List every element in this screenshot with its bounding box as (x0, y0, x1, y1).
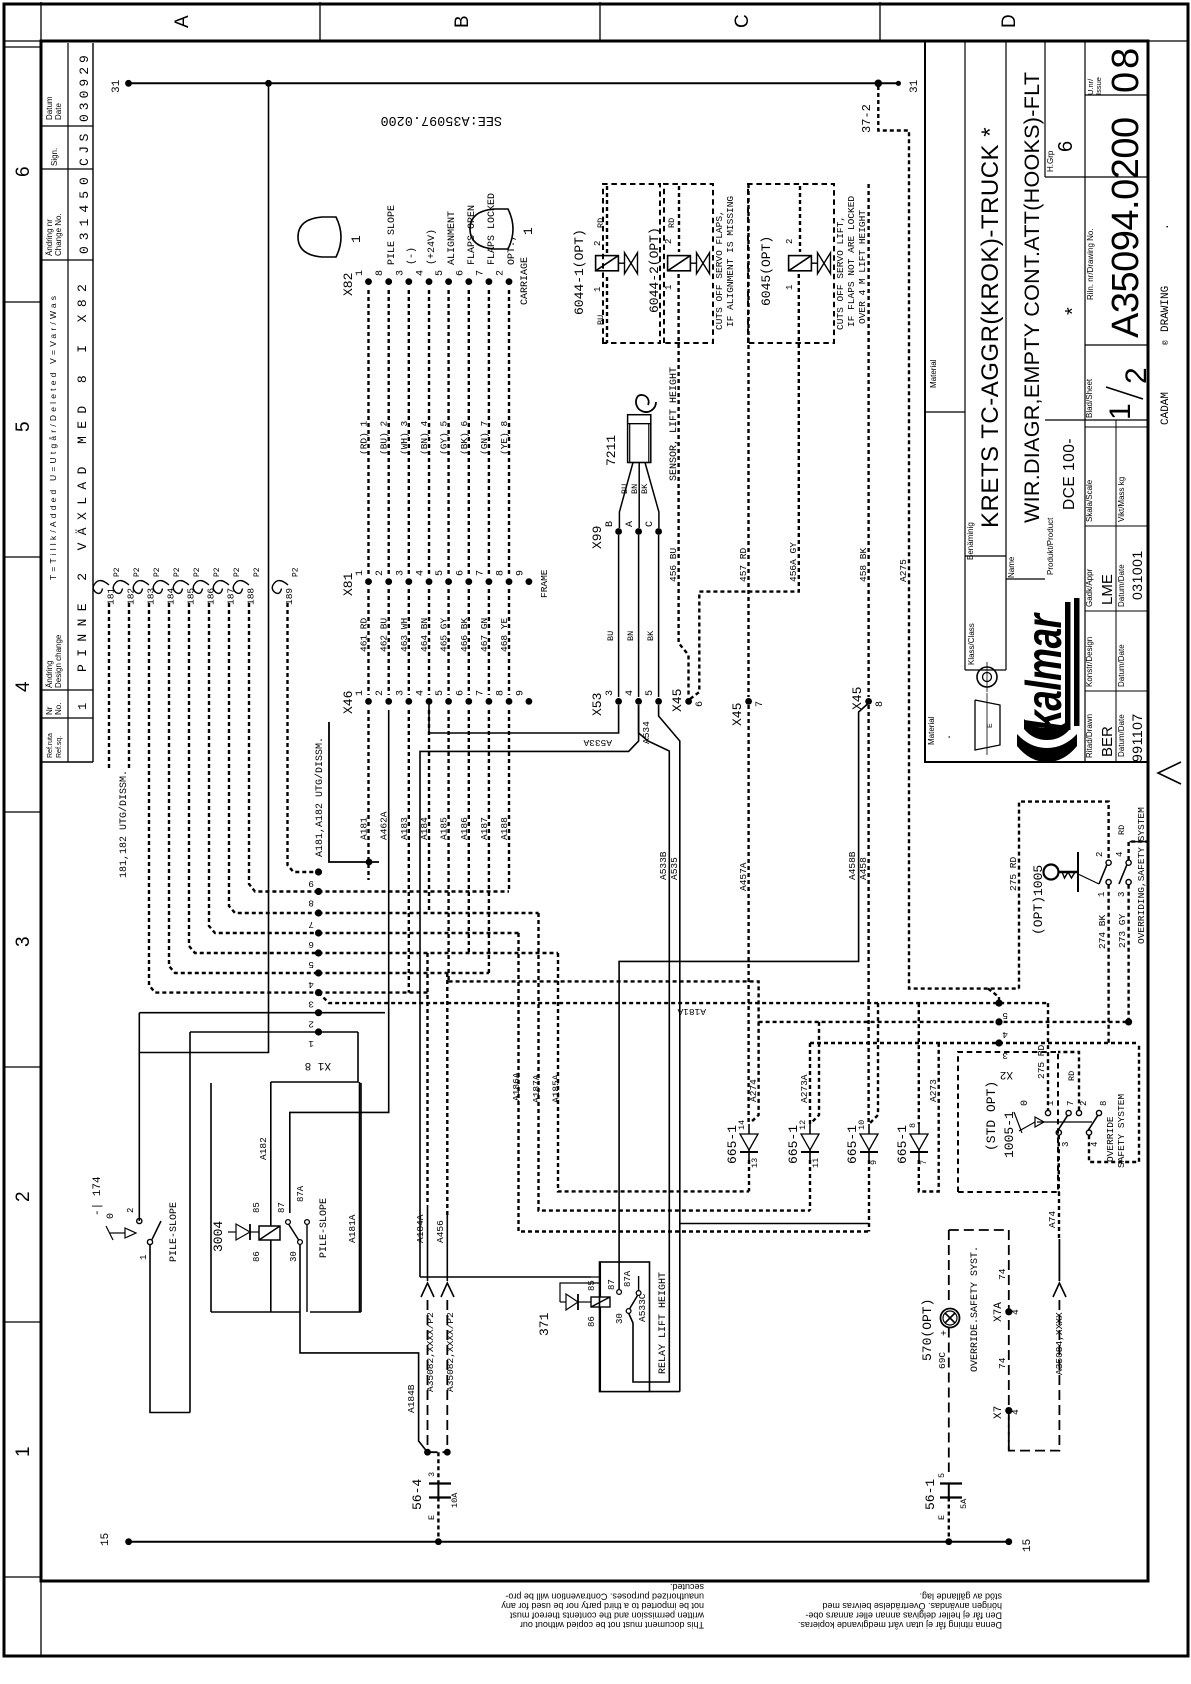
svg-text:A185A: A185A (551, 1074, 562, 1103)
wires X81 to X46 (8 dotted) (367, 589, 369, 695)
svg-text:OVERRIDE.SAFETY SYST.: OVERRIDE.SAFETY SYST. (970, 1246, 981, 1372)
svg-text:written permission and the con: written permission and the contents ther… (509, 1611, 705, 1621)
svg-text:A35094.0200: A35094.0200 (1105, 117, 1147, 338)
wire solid link A535 to diode3 area (680, 1223, 869, 1225)
svg-text:31: 31 (111, 79, 123, 93)
wire lamp to fuse 56-1 (948, 1328, 950, 1473)
svg-text:2: 2 (664, 239, 674, 244)
wire 3004 coil 86 down (270, 1240, 272, 1312)
svg-text:11: 11 (811, 1158, 821, 1168)
svg-text:1: 1 (355, 270, 366, 276)
relay 371 coil wires (599, 1262, 601, 1297)
svg-text:15: 15 (100, 1533, 112, 1546)
relay 3004 diode (236, 1224, 250, 1240)
svg-text:X1 8: X1 8 (305, 1059, 331, 1071)
svg-text:C: C (732, 14, 753, 28)
wire A186 X46-6 down (468, 710, 470, 953)
wire A457A X45-7 to diode1 (747, 705, 749, 1124)
svg-text:CUTS OFF SERVO LIFT,: CUTS OFF SERVO LIFT, (835, 216, 846, 330)
svg-text:69C: 69C (937, 1352, 948, 1369)
valve coil (789, 256, 812, 271)
svg-text:1: 1 (521, 227, 536, 235)
svg-text:PILE-SLOPE: PILE-SLOPE (169, 1202, 180, 1262)
svg-text:87A: 87A (623, 1270, 633, 1287)
svg-text:X46: X46 (341, 691, 356, 714)
svg-text:Denna ritning får ej utan vårt: Denna ritning får ej utan vårt medgivand… (798, 1620, 1002, 1630)
svg-text:(YE) 8: (YE) 8 (499, 420, 510, 455)
svg-text:5A: 5A (959, 1498, 969, 1509)
svg-text:Material: Material (927, 716, 936, 745)
svg-text:DRAWING: DRAWING (1160, 286, 1172, 332)
svg-text:7: 7 (475, 690, 486, 696)
wire 184 to X1-4 (169, 603, 319, 973)
svg-text:A35084,XXXX: A35084,XXXX (1054, 1312, 1065, 1375)
svg-text:not be imported to a third par: not be imported to a third party nor be … (501, 1601, 704, 1611)
title block outline (925, 41, 1148, 762)
svg-text:5: 5 (1002, 1010, 1008, 1021)
wire 456 BU 6044-2 pin1 drop to X45-6 (679, 274, 689, 697)
zone strip dividers numbers (4, 46, 41, 48)
zone strip dividers letters (319, 2, 321, 41)
cable A35082.XXXX/P2 no1 (427, 1300, 429, 1452)
svg-text:IF ALIGNMENT IS MISSING: IF ALIGNMENT IS MISSING (725, 196, 736, 327)
svg-text:1005-1: 1005-1 (1002, 1111, 1017, 1158)
svg-text:KRETS TC-AGGR(KROK)-TRUCK *: KRETS TC-AGGR(KROK)-TRUCK * (977, 127, 1004, 528)
svg-text:4: 4 (416, 690, 427, 696)
svg-text:1: 1 (308, 1038, 314, 1049)
svg-text:stöd av gällande lag.: stöd av gällande lag. (919, 1592, 1002, 1602)
option box 6044-2 (664, 184, 713, 343)
svg-text:8: 8 (875, 701, 886, 707)
wire bus 31 (129, 82, 899, 84)
svg-text:IF FLAPS NOT ARE LOCKED: IF FLAPS NOT ARE LOCKED (846, 196, 857, 327)
node junction bus31 to A182 feed (265, 80, 272, 87)
connector X1 junction dots (315, 868, 322, 875)
svg-text:Ref.sq.: Ref.sq. (56, 736, 63, 758)
cable A35084.XXXX (1009, 1300, 1060, 1451)
svg-text:X45: X45 (730, 703, 745, 726)
svg-text:RD: RD (667, 218, 677, 228)
svg-text:2: 2 (308, 1019, 314, 1030)
svg-text:kalmar: kalmar (1017, 612, 1073, 731)
svg-text:X53: X53 (590, 693, 605, 716)
svg-text:BU: BU (596, 315, 606, 325)
corner caret mark (1158, 762, 1181, 784)
svg-text:(GY) 5: (GY) 5 (439, 420, 450, 455)
svg-text:PILE SLOPE: PILE SLOPE (387, 205, 398, 265)
svg-text:CJS: CJS (77, 129, 92, 166)
svg-text:4: 4 (1010, 1309, 1021, 1315)
svg-text:2: 2 (375, 690, 386, 696)
svg-text:A: A (625, 521, 636, 527)
svg-text:Den får ej heller delgivas ann: Den får ej heller delgivas annan eller a… (805, 1611, 1002, 1621)
svg-text:Vikt/Mass kg: Vikt/Mass kg (1117, 477, 1126, 522)
wire A534 X53-4 left (420, 705, 639, 1277)
svg-text:4: 4 (13, 681, 34, 692)
wire 6045 RD riser (799, 186, 801, 252)
svg-text:13: 13 (750, 1158, 760, 1168)
wire 275 RD riser to key switch (1019, 802, 1109, 989)
svg-text:2: 2 (785, 239, 795, 244)
svg-text:6044-1(OPT): 6044-1(OPT) (572, 229, 587, 315)
svg-text:A458: A458 (858, 857, 869, 880)
svg-text:2: 2 (13, 1191, 34, 1202)
svg-text:8: 8 (308, 898, 314, 909)
relay 371 coil (591, 1297, 610, 1307)
wire A275/37-2 drop (878, 86, 1019, 989)
svg-text:BN: BN (630, 484, 640, 494)
svg-text:Name: Name (1007, 556, 1016, 578)
wire 456A GY 6045 pin1 to X45-6 (690, 274, 799, 699)
svg-text:7: 7 (308, 919, 314, 930)
connector X7 (1005, 1407, 1012, 1414)
wire A181/A182 outgoing stub (329, 722, 379, 862)
wire A185 X46-5 down (447, 710, 449, 981)
svg-text:Benäminig: Benäminig (966, 522, 975, 560)
svg-text:Datum/Date: Datum/Date (1117, 714, 1126, 757)
svg-text:9: 9 (308, 878, 314, 889)
switch 1005-1 contacts (1045, 1110, 1050, 1115)
wire A535 X53-5 to relay 371 (659, 705, 680, 1392)
svg-text:4: 4 (1010, 1409, 1021, 1415)
svg-text:Date: Date (54, 103, 63, 120)
chevron A74 (1053, 1283, 1066, 1297)
wire relay 371 87 riser to A458B (619, 703, 869, 1290)
svg-text:BN: BN (626, 631, 636, 641)
svg-text:A181A: A181A (677, 1006, 706, 1017)
switch 1005 mechanical bar (1077, 852, 1079, 892)
svg-text:186: 186 (206, 588, 217, 605)
svg-text:6: 6 (455, 570, 466, 576)
svg-text:E: E (987, 723, 994, 728)
svg-text:P2: P2 (253, 567, 262, 577)
node cable ends (424, 1449, 431, 1456)
zone strip line top (4, 40, 1188, 42)
svg-text:BU: BU (606, 631, 616, 641)
wire A181 X46-1 down (367, 710, 369, 880)
svg-text:®: ® (1162, 340, 1171, 345)
svg-text:3: 3 (13, 936, 34, 947)
svg-text:8: 8 (496, 690, 507, 696)
svg-text:7: 7 (755, 701, 766, 707)
svg-text:466 BK: 466 BK (459, 617, 470, 652)
wire 85 feed from A534 (420, 1276, 591, 1278)
connector X7A (1005, 1308, 1012, 1315)
svg-text:1: 1 (13, 1446, 34, 1457)
svg-text:FRAME: FRAME (539, 569, 550, 598)
svg-text:Material: Material (929, 359, 938, 388)
wire bus5 branch to diode3 (870, 1003, 878, 1123)
wire X1-1 drop to pile-slope loop (189, 1032, 191, 1413)
svg-text:Nr: Nr (45, 706, 54, 715)
svg-text:87: 87 (277, 1202, 287, 1213)
svg-text:BK: BK (646, 630, 656, 641)
switch 1005-1 option box (958, 1052, 1058, 1192)
svg-text:A274: A274 (748, 1079, 759, 1102)
svg-text:3: 3 (308, 999, 314, 1010)
svg-text:5: 5 (13, 421, 34, 432)
svg-text:467 GN: 467 GN (479, 618, 490, 652)
title block horizontal dividers (landscape rows) (964, 41, 966, 670)
svg-text:184: 184 (166, 588, 177, 605)
node 31 right end (896, 81, 901, 86)
svg-text:3: 3 (605, 690, 616, 696)
svg-text:SAFETY SYSTEM: SAFETY SYSTEM (1116, 1094, 1127, 1168)
svg-text:468 YE: 468 YE (499, 617, 510, 652)
svg-text:181: 181 (106, 588, 117, 605)
svg-text:56-1: 56-1 (923, 1479, 938, 1510)
wire A273 diode4 to bus3 (919, 1043, 939, 1192)
wires X82 to X81 (8 dotted) (367, 290, 369, 574)
svg-text:74: 74 (997, 1268, 1008, 1280)
svg-text:86: 86 (587, 1316, 597, 1327)
svg-text:14: 14 (737, 1120, 747, 1130)
svg-text:.: . (943, 734, 954, 740)
relay 371 contact 87A stub (638, 1276, 640, 1291)
svg-text:991107: 991107 (1129, 713, 1145, 762)
wire A181A to 3004 (359, 1082, 361, 1312)
wire row 981 X46-5 to bus4 riser (449, 981, 759, 1022)
valve coil (668, 256, 691, 271)
wire 181 down (discontinued) (108, 603, 110, 770)
svg-text:A273: A273 (928, 1079, 939, 1102)
wire A182/A181A riser from X1-1 (271, 1032, 358, 1082)
svg-text:A275: A275 (898, 559, 909, 582)
wire diode2 down to run2 (809, 1160, 811, 1211)
svg-text:Datum/Date: Datum/Date (1117, 564, 1126, 607)
wire 182 down (discontinued) (128, 603, 130, 770)
svg-text:1: 1 (139, 1255, 149, 1260)
svg-text:H.Grp: H.Grp (1046, 150, 1055, 172)
svg-text:A35082,XXXX/P2: A35082,XXXX/P2 (445, 1312, 456, 1392)
svg-text:P2: P2 (193, 567, 202, 577)
relay 371 box (600, 1262, 650, 1392)
svg-text:CARRIAGE: CARRIAGE (520, 257, 531, 305)
svg-text:4: 4 (1002, 1029, 1008, 1040)
option box 6045 (748, 184, 834, 343)
svg-text:.: . (1160, 223, 1172, 230)
svg-text:hörigen användas. Överträdelse: hörigen användas. Överträdelse beivras m… (822, 1601, 1002, 1611)
svg-text:3: 3 (1061, 1142, 1071, 1147)
Kalmar logo (1017, 598, 1080, 762)
node junction bus31 37-2 (875, 80, 883, 88)
wire 6044-1 BU drop (606, 277, 608, 343)
svg-text:465 GY: 465 GY (439, 617, 450, 652)
svg-text:A533C: A533C (637, 1293, 648, 1322)
wire A458 X45-8 to diode3 (867, 705, 869, 1124)
svg-text:(STD OPT): (STD OPT) (984, 1081, 999, 1151)
svg-text:2: 2 (1079, 1101, 1089, 1106)
svg-text:BER: BER (1099, 726, 1116, 757)
svg-text:5: 5 (435, 270, 446, 276)
svg-text:X7A: X7A (993, 1302, 1005, 1322)
svg-text:D: D (999, 14, 1020, 28)
valve body bowtie (625, 253, 632, 274)
wire A184A solid tail (427, 1205, 429, 1281)
svg-text:(-): (-) (406, 247, 418, 265)
relay 3004 coil (259, 1226, 280, 1240)
svg-text:2: 2 (1120, 367, 1153, 384)
svg-text:T=Tillk/Added U=Utgår/Deleted: T=Tillk/Added U=Utgår/Deleted V=Var/Was (48, 293, 58, 580)
svg-text:A35082,XXXX/P2: A35082,XXXX/P2 (425, 1312, 436, 1392)
svg-text:4: 4 (1090, 1142, 1100, 1147)
svg-text:2: 2 (126, 1208, 136, 1213)
svg-text:RD: RD (596, 218, 606, 228)
wire 3004 terminal 30 exit to A184B (300, 1244, 428, 1452)
wire A184 X46-4 down (428, 710, 430, 913)
chevron A184A (421, 1283, 434, 1297)
svg-text:4: 4 (625, 690, 636, 696)
svg-text:A458B: A458B (847, 851, 858, 880)
wire A274 bus4 to diode1 (750, 1022, 759, 1123)
wire 274 BK contact1 down (1107, 885, 1109, 1043)
svg-text:A273A: A273A (799, 1074, 810, 1103)
X81 pin 9 FRAME (526, 578, 533, 585)
title block sub-row split of bottom row (1115, 420, 1117, 762)
svg-text:(RD) 1: (RD) 1 (359, 420, 370, 455)
node 31 left end (125, 80, 132, 87)
svg-text:A456: A456 (435, 1220, 446, 1243)
svg-text:B: B (605, 521, 616, 527)
wire staircase row 3 short (319, 991, 431, 993)
svg-text:458 BK: 458 BK (858, 547, 869, 582)
svg-text:A184B: A184B (406, 1384, 417, 1413)
svg-text:8: 8 (375, 270, 386, 276)
svg-text:7: 7 (1066, 1101, 1076, 1106)
wire 273 GY contact3 down (1127, 885, 1129, 1019)
svg-text:(BK) 6: (BK) 6 (459, 420, 470, 455)
svg-text:LME: LME (1099, 574, 1116, 605)
svg-text:1: 1 (593, 287, 603, 292)
wire 186 to X1-6 (209, 603, 319, 933)
svg-text:456 BU: 456 BU (668, 547, 679, 582)
svg-text:PINNE 2 VÄXLAD MED 8 I X82: PINNE 2 VÄXLAD MED 8 I X82 (75, 277, 90, 672)
svg-text:665-1: 665-1 (895, 1125, 910, 1164)
svg-text:A74: A74 (1047, 1211, 1058, 1228)
svg-text:X45: X45 (850, 687, 865, 710)
svg-text:5: 5 (435, 570, 446, 576)
svg-text:37-2: 37-2 (860, 104, 874, 133)
svg-text:unauthorized purposes. Contrav: unauthorized purposes. Contravention wil… (505, 1592, 704, 1602)
svg-text:275 RD: 275 RD (1036, 1044, 1047, 1079)
svg-text:Konstr/Design: Konstr/Design (1085, 637, 1094, 687)
svg-text:Ritad/Drawn: Ritad/Drawn (1085, 714, 1094, 758)
svg-text:1: 1 (1104, 403, 1137, 420)
wire 6044-1 RD riser (606, 186, 608, 255)
svg-text:275 RD: 275 RD (1008, 856, 1019, 891)
wire 189 to X1-9 (288, 603, 319, 872)
svg-text:7: 7 (475, 270, 486, 276)
svg-text:2: 2 (496, 270, 507, 276)
svg-text:87A: 87A (296, 1185, 306, 1202)
svg-text:Sign.: Sign. (50, 148, 59, 166)
svg-text:1: 1 (349, 235, 364, 243)
svg-text:P2: P2 (153, 567, 162, 577)
svg-text:Datum/Date: Datum/Date (1117, 644, 1126, 687)
svg-text:4: 4 (308, 979, 314, 990)
svg-text:3004: 3004 (211, 1221, 226, 1252)
svg-text:7211: 7211 (604, 435, 619, 466)
wire A74 solid (1058, 1239, 1060, 1281)
svg-text:1: 1 (76, 703, 90, 710)
wire bus31 feed down (px270) (139, 83, 268, 1052)
wire to lamp 570 (948, 1230, 950, 1300)
wires X99 to X53 (618, 535, 620, 697)
valve body bowtie (818, 253, 825, 274)
svg-text:C: C (645, 521, 656, 527)
X46 pin 9 (526, 698, 533, 705)
sensor wires fan to X99 (619, 463, 633, 529)
wire staircase row 5 to A185A riser (319, 952, 559, 954)
svg-text:85: 85 (587, 1280, 597, 1291)
svg-text:X82: X82 (341, 273, 356, 296)
title block vertical dividers (landscape columns) (925, 411, 965, 413)
svg-text:8: 8 (1099, 1101, 1109, 1106)
wire bus 15 (129, 1541, 1009, 1543)
svg-text:secuted.: secuted. (670, 1582, 704, 1592)
node fuse 56-1 to bus (945, 1538, 952, 1545)
svg-text:189: 189 (284, 588, 295, 605)
svg-text:462 BU: 462 BU (379, 617, 390, 652)
svg-text:(GN) 7: (GN) 7 (479, 421, 490, 455)
svg-text:1: 1 (664, 285, 674, 290)
wire contact 4 to bus3 (1089, 1043, 1139, 1162)
svg-text:*: * (1062, 307, 1084, 315)
svg-text:CUTS OFF SERVO FLAPS,: CUTS OFF SERVO FLAPS, (714, 210, 725, 330)
svg-text:464 BN: 464 BN (419, 618, 430, 652)
svg-text:RD: RD (1067, 1071, 1077, 1081)
svg-text:30: 30 (615, 1313, 625, 1324)
valve coil (596, 256, 619, 271)
svg-text:5: 5 (937, 1473, 947, 1478)
node 15 left (125, 1538, 132, 1545)
svg-text:Klass/Class: Klass/Class (967, 623, 976, 665)
svg-text:RD: RD (1117, 825, 1127, 835)
svg-text:SEE:A35097.0200: SEE:A35097.0200 (380, 112, 502, 127)
svg-text:273 GY: 273 GY (1117, 913, 1128, 948)
svg-text:X2: X2 (1000, 1068, 1013, 1080)
svg-text:457 RD: 457 RD (738, 547, 749, 582)
svg-text:B: B (452, 15, 473, 28)
svg-text:181,182 UTG/DISSM.: 181,182 UTG/DISSM. (118, 770, 130, 878)
node fuse 56-4 to bus (435, 1538, 442, 1545)
svg-text:X99: X99 (590, 526, 605, 549)
svg-text:Skala/Scale: Skala/Scale (1085, 479, 1094, 522)
svg-text:031450: 031450 (77, 171, 92, 254)
svg-text:0: 0 (1020, 1100, 1031, 1106)
svg-text:(BN) 4: (BN) 4 (419, 420, 430, 455)
svg-text:FLAPS LOCKED: FLAPS LOCKED (487, 193, 498, 265)
wire A187 X46-7 down (488, 710, 490, 973)
svg-text:570(OPT): 570(OPT) (920, 1299, 935, 1361)
svg-text:4: 4 (416, 270, 427, 276)
wire 185 to X1-5 (189, 603, 319, 953)
wire A74 contact 3 down (1058, 1135, 1060, 1192)
node A181 junction (366, 859, 373, 866)
svg-text:08: 08 (1105, 45, 1147, 93)
bus 3 X2 (810, 1042, 1139, 1044)
relay 371 diode (566, 1294, 578, 1310)
svg-text:6: 6 (308, 939, 314, 950)
svg-text:DCE 100-: DCE 100- (1061, 438, 1078, 510)
svg-text:56-4: 56-4 (410, 1479, 425, 1510)
svg-text:OVER 4 M LIFT HEIGHT: OVER 4 M LIFT HEIGHT (857, 210, 868, 324)
wire A273A bus3 to diode2 (809, 1043, 811, 1124)
svg-text:ALIGNMENT: ALIGNMENT (447, 211, 458, 265)
svg-text:A187A: A187A (531, 1074, 542, 1103)
wire X7A/X7 column (1008, 1230, 1010, 1451)
svg-text:8: 8 (496, 570, 507, 576)
